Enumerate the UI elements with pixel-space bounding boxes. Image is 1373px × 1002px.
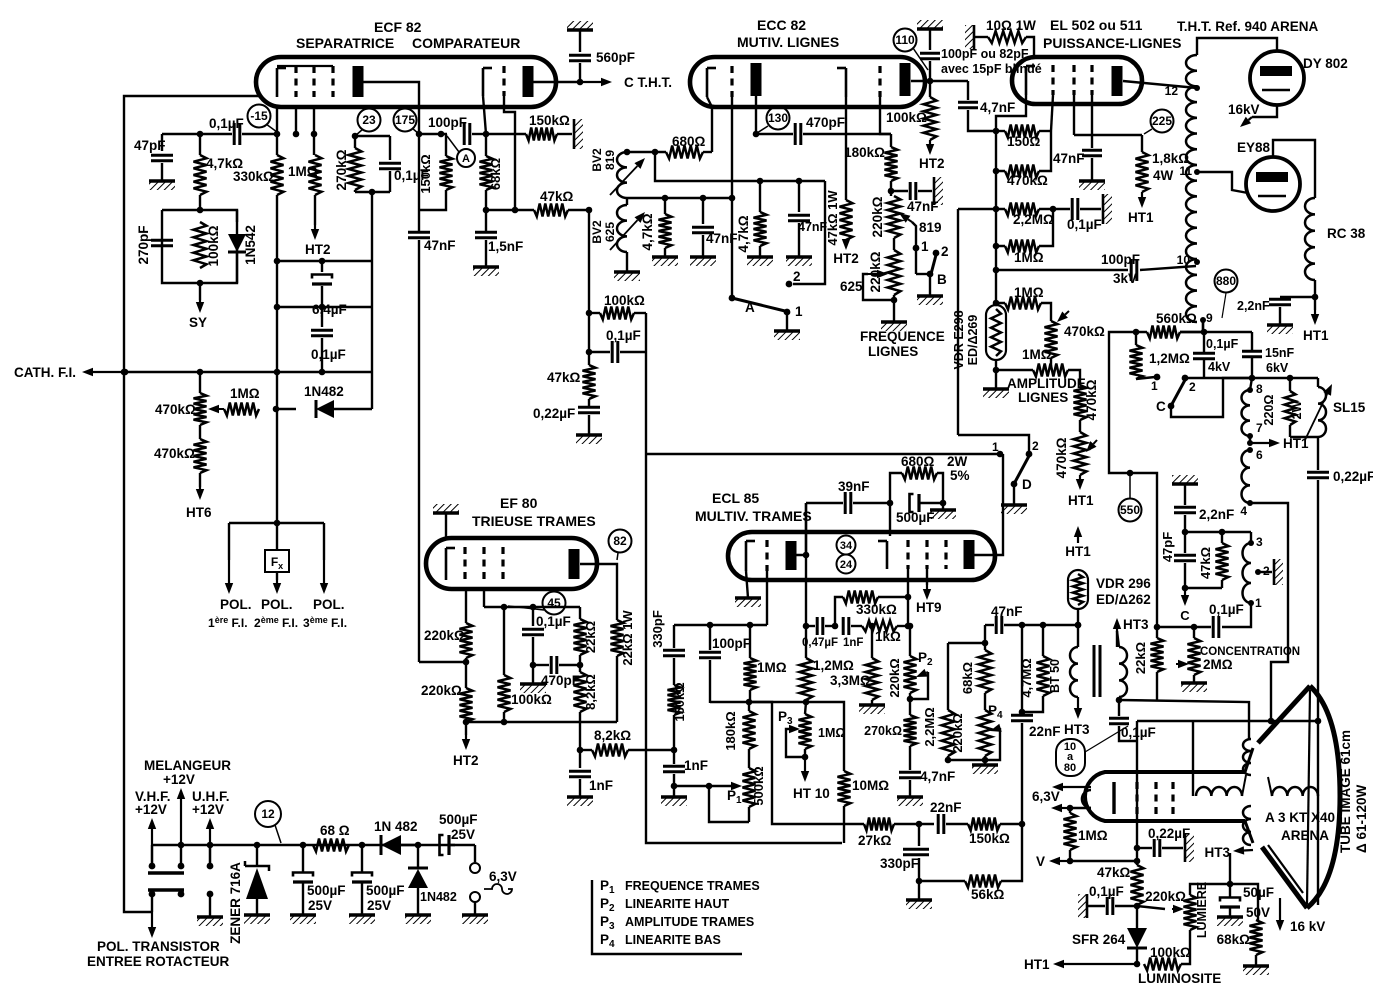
resistor 100k box: [589, 293, 646, 320]
svg-text:1MΩ: 1MΩ: [1022, 347, 1052, 362]
capacitor 470pF: [756, 115, 891, 145]
box trames left-bottom: [646, 454, 842, 843]
capacitor 22nF lin: [930, 800, 968, 834]
svg-text:4,7kΩ: 4,7kΩ: [640, 213, 655, 250]
resistor 3,3M tr: [830, 623, 879, 705]
svg-text:HT2: HT2: [305, 242, 331, 257]
svg-text:220Ω: 220Ω: [1262, 395, 1276, 426]
svg-text:D: D: [1022, 477, 1032, 492]
tap 11: [1179, 164, 1200, 178]
svg-text:180kΩ: 180kΩ: [723, 711, 738, 750]
wire EY88 top: [1273, 140, 1315, 198]
ground 47nF osc: [786, 257, 812, 266]
svg-text:8,2kΩ: 8,2kΩ: [583, 674, 598, 710]
svg-text:819: 819: [603, 150, 617, 170]
capacitor 0,1uF box: [589, 328, 646, 363]
svg-text:8: 8: [1256, 382, 1263, 396]
ground 0,22uF: [576, 435, 602, 444]
pin circle 175: [394, 109, 420, 135]
capacitor 100pF tr: [699, 625, 751, 703]
tap 7: [1247, 421, 1263, 439]
capacitor 47nF col419: [408, 232, 456, 662]
svg-text:TUBE IMAGE 61cm: TUBE IMAGE 61cm: [1338, 730, 1353, 853]
wire g2 rail: [1074, 134, 1142, 136]
svg-text:4,7kΩ: 4,7kΩ: [736, 215, 751, 252]
svg-text:HT3: HT3: [1123, 617, 1149, 632]
svg-text:12: 12: [261, 807, 275, 821]
CRT funnel bottom: [1262, 845, 1307, 908]
tube ECC82 label: [737, 17, 839, 50]
wire RC38 bottom: [1312, 280, 1319, 310]
svg-text:-15: -15: [250, 109, 268, 123]
wire rail y261: [277, 260, 372, 262]
wire x419 long: [418, 134, 420, 232]
CRT yoke hump bottom: [1243, 806, 1251, 845]
yoke coil left: [1193, 721, 1246, 796]
label A3KT X40 ARENA: [1265, 810, 1335, 843]
ground 1,5nF: [473, 267, 499, 276]
wire 560k left col: [1109, 332, 1157, 627]
THT sec coil 6-4: [1240, 447, 1263, 518]
capacitor 2,2nF thtr: [1237, 297, 1315, 325]
resistor 8,2k h: [580, 728, 677, 757]
wire ef bottom: [466, 721, 617, 723]
potentiometer 220k lumiere: [1145, 882, 1209, 938]
bracket 819: [912, 220, 942, 254]
ground 68k crt: [1243, 966, 1269, 975]
svg-text:550: 550: [1120, 503, 1140, 517]
capacitor 2,2nF mid: [1174, 507, 1234, 535]
capacitor 0,47uF: [802, 617, 838, 649]
label DY802: [1303, 56, 1348, 71]
wire top rail y134: [162, 131, 232, 138]
svg-text:470kΩ: 470kΩ: [1054, 437, 1069, 478]
rotacteur contacts VHF: [148, 845, 184, 912]
capacitor 0,1uF el: [1067, 198, 1102, 232]
pin circle 550: [1119, 470, 1142, 522]
bracket P1: [706, 783, 749, 822]
resistor 220 2W: [1262, 375, 1304, 437]
ground concentration: [1181, 683, 1207, 692]
tube ECL85 envelope: [728, 532, 995, 580]
svg-text:1,2MΩ: 1,2MΩ: [1149, 351, 1190, 366]
svg-text:12: 12: [1165, 84, 1179, 98]
svg-text:470pF: 470pF: [806, 115, 845, 130]
POL bracket: [229, 520, 324, 527]
svg-text:HT 10: HT 10: [793, 786, 830, 801]
svg-text:1MΩ: 1MΩ: [230, 386, 260, 401]
svg-text:225: 225: [1152, 114, 1172, 128]
switch B: [916, 244, 949, 296]
wire bt50 right top: [1117, 631, 1119, 647]
svg-text:0,22µF: 0,22µF: [1333, 469, 1373, 484]
capacitor 1nF tr2: [663, 750, 708, 797]
tube EF80 cathode: [446, 548, 455, 580]
label HT3 right: [1113, 617, 1149, 632]
arrow 16kV top: [1228, 102, 1260, 127]
pin circle 880: [1215, 270, 1238, 319]
tube EL502 cathode: [1026, 66, 1035, 95]
label VHF: [135, 789, 171, 817]
svg-text:3kV: 3kV: [1113, 271, 1137, 286]
wire EL502 g2 pin: [1073, 95, 1075, 135]
svg-text:625: 625: [603, 222, 617, 242]
wire SY out: [199, 283, 201, 300]
CRT yoke hump top: [1243, 739, 1251, 775]
resistor 10ohm 1W: [965, 18, 1036, 57]
resistor 470k lignes: [993, 131, 1051, 188]
capacitor 1nF tr: [843, 617, 863, 649]
wire ECL85 g2 pin: [905, 569, 912, 629]
svg-text:COMPARATEUR: COMPARATEUR: [412, 35, 520, 51]
svg-text:HT1: HT1: [1303, 328, 1329, 343]
tube EL502 envelope: [1012, 57, 1142, 104]
THT coil 3-2-1: [1243, 532, 1271, 610]
capacitor 270pF: [136, 225, 173, 264]
resistor 1M tr: [744, 625, 787, 702]
tube ECF82 grid g1: [294, 66, 297, 97]
pin circle -15: [248, 105, 278, 133]
svg-text:EF 80: EF 80: [500, 495, 538, 511]
legend P2: [600, 896, 730, 914]
svg-text:24: 24: [840, 559, 853, 571]
capacitor 1,5nF: [475, 232, 523, 267]
wire col x372 to diode: [371, 372, 373, 409]
ground P4: [972, 765, 998, 774]
svg-text:2: 2: [793, 269, 801, 284]
ground 500uF n1: [290, 915, 316, 924]
label HT1 amp: [1068, 493, 1094, 508]
svg-text:0,1µF: 0,1µF: [1089, 884, 1124, 899]
svg-text:CATH. F.I.: CATH. F.I.: [14, 365, 76, 380]
svg-text:1: 1: [795, 304, 803, 319]
tube EF80 grid g1: [463, 547, 466, 580]
switch C contact1: [1151, 374, 1160, 393]
svg-text:BV2: BV2: [590, 220, 604, 244]
tube ECF82 anode a2: [523, 66, 534, 97]
svg-text:500µF: 500µF: [896, 510, 935, 525]
resistor 4,7k bv: [640, 198, 672, 257]
arrow C THT: [580, 75, 672, 90]
svg-text:HT1: HT1: [1283, 436, 1309, 451]
switch C contact2: [1182, 375, 1204, 394]
resistor 1M el2: [993, 246, 1044, 310]
svg-text:10: 10: [1177, 253, 1191, 267]
svg-text:47nF: 47nF: [1053, 151, 1085, 166]
capacitor 500uF n1: [293, 845, 346, 915]
svg-text:6,4µF: 6,4µF: [312, 302, 347, 317]
box Fx: [265, 523, 289, 580]
wire ECF82 g2 pin down: [311, 107, 318, 155]
label CATH F.I.: [14, 365, 76, 380]
svg-text:C: C: [1156, 399, 1166, 414]
svg-text:4kV: 4kV: [1208, 360, 1231, 374]
arrow UHF: [206, 818, 214, 866]
wire k2 riser: [889, 503, 891, 536]
resistor 220k ef1: [424, 623, 473, 688]
svg-text:1ère F.I.: 1ère F.I.: [208, 615, 248, 630]
svg-text:HT1: HT1: [1068, 493, 1094, 508]
wire HT3 row: [1116, 631, 1118, 647]
svg-text:330pF: 330pF: [650, 610, 665, 648]
capacitor 330pF lin: [880, 824, 929, 884]
svg-text:HT1: HT1: [1065, 544, 1091, 559]
tube ECF82 grid g4: [502, 66, 505, 96]
svg-text:2,2nF: 2,2nF: [1199, 507, 1234, 522]
svg-text:2,2MΩ: 2,2MΩ: [922, 707, 937, 746]
pin circle 45: [508, 592, 566, 615]
resistor 270k: [334, 136, 362, 192]
svg-text:V: V: [1036, 854, 1045, 869]
svg-text:2: 2: [1189, 380, 1196, 394]
wire 12V bus: [152, 842, 455, 849]
THT sec coil 8-7: [1242, 378, 1264, 436]
svg-text:ECF 82: ECF 82: [374, 19, 422, 35]
pin circle 12: [255, 801, 281, 843]
wire EL502 k pin: [996, 95, 1026, 131]
svg-text:MULTIV. TRAMES: MULTIV. TRAMES: [695, 508, 812, 524]
capacitor 15nF 6kV: [1242, 332, 1295, 381]
resistor 220k P2: [887, 623, 933, 715]
wire ECL85 g1 pin: [766, 571, 768, 625]
resistor 680: [624, 134, 712, 159]
arrow HT1 sfr: [1024, 957, 1137, 972]
svg-text:HT2: HT2: [453, 753, 479, 768]
tube EY88: [1246, 157, 1300, 211]
bracket 625: [840, 274, 894, 300]
svg-text:220kΩ: 220kΩ: [424, 628, 465, 643]
potentiometer 470k mid: [1041, 303, 1105, 358]
capacitor 22nF tr: [1011, 625, 1061, 875]
svg-text:FREQUENCE: FREQUENCE: [860, 329, 945, 344]
svg-text:TRIEUSE TRAMES: TRIEUSE TRAMES: [472, 513, 596, 529]
resistor 100k ef: [498, 607, 553, 725]
resistor 68k: [480, 134, 504, 232]
hatch 2,2nF mid: [1172, 475, 1198, 505]
wire y625 rail: [674, 622, 767, 629]
svg-text:625: 625: [840, 279, 863, 294]
resistor 4,7M tr: [1019, 625, 1050, 712]
svg-text:220kΩ: 220kΩ: [421, 683, 462, 698]
resistor 56k lin: [919, 875, 1022, 903]
ground UHF: [197, 917, 223, 926]
wire ECC82 g2 pin: [880, 97, 891, 134]
arrow HT1 rc38: [1303, 310, 1329, 343]
wire 100pF3kV rail: [996, 269, 1128, 271]
svg-text:4,7nF: 4,7nF: [920, 769, 955, 784]
label POL 1ere FI: [208, 597, 252, 630]
wire ECC82 k2 pin: [845, 97, 847, 200]
svg-text:0,1µF: 0,1µF: [536, 614, 571, 629]
wire y198 rail: [627, 195, 735, 202]
tube ECC82 cathode k1: [707, 68, 716, 97]
wire ECF82 g1 pin down: [293, 107, 300, 137]
svg-text:470kΩ: 470kΩ: [1064, 324, 1105, 339]
capacitor 0,1uF AGC: [311, 307, 346, 375]
capacitor 0,1uF crt: [1109, 718, 1156, 741]
wire 110 rail: [930, 80, 968, 82]
svg-text:MELANGEUR: MELANGEUR: [144, 758, 231, 773]
wire tap11 to EY88: [1197, 172, 1248, 193]
svg-text:1: 1: [1255, 596, 1262, 610]
diode 1N482 shunt: [408, 845, 457, 915]
svg-text:150kΩ: 150kΩ: [529, 113, 570, 128]
wire ECF82 k2 pin down: [483, 96, 486, 134]
ground 47nF bv: [690, 257, 716, 266]
wire 550 line: [1050, 358, 1052, 368]
tube EL502 anode: [1112, 66, 1123, 96]
resistor 1M grid: [288, 155, 322, 225]
label HT2 100k: [919, 156, 945, 171]
svg-text:15nF: 15nF: [1265, 346, 1295, 360]
pin circle 130: [757, 107, 790, 134]
tube EL502 grid g2: [1072, 65, 1075, 95]
svg-text:4W: 4W: [1153, 168, 1174, 183]
legend P3: [600, 914, 754, 932]
legend P1: [600, 878, 760, 896]
vdr VDR296: [1068, 570, 1151, 609]
svg-text:SEPARATRICE: SEPARATRICE: [296, 35, 394, 51]
label MELANGEUR: [144, 758, 231, 787]
arrow SY: [189, 300, 207, 330]
capacitor 4,7nF tr: [899, 769, 955, 797]
wire ECF82 k1 pin down: [276, 107, 278, 134]
rotacteur contacts UHF: [207, 845, 214, 917]
resistor 100k lum: [1144, 930, 1191, 971]
ground 2,2nF thtr: [1267, 325, 1293, 334]
svg-text:3: 3: [1256, 535, 1263, 549]
zener 716A: [228, 845, 269, 944]
wire 23 rail: [355, 135, 390, 137]
resistor 560k: [1147, 311, 1203, 339]
svg-text:819: 819: [919, 220, 942, 235]
wire 1,2M: [1130, 329, 1191, 379]
capacitor 500uF trames: [896, 494, 946, 525]
svg-text:POL.: POL.: [261, 597, 293, 612]
arrow HT3 bt50: [1064, 697, 1090, 737]
wire y607 rail: [484, 604, 580, 611]
arrow HT2 ef: [453, 735, 479, 768]
svg-text:47pF: 47pF: [134, 138, 166, 153]
resistor 22k conc: [1133, 627, 1164, 700]
tube ECF82 label: [296, 19, 520, 51]
POL arrow 2: [273, 580, 281, 594]
capacitor 0,22uF col589: [533, 406, 600, 435]
svg-text:68kΩ: 68kΩ: [960, 662, 975, 694]
wire yoke top rail: [1137, 718, 1321, 725]
label UHF: [192, 789, 230, 817]
svg-text:4: 4: [1240, 504, 1247, 518]
svg-text:27kΩ: 27kΩ: [858, 833, 892, 848]
svg-text:A: A: [745, 300, 755, 315]
wire tap4 out: [1250, 503, 1288, 721]
capacitor 560pF: [567, 21, 635, 85]
transformer BT50 core: [1094, 645, 1100, 697]
label TUBE IMAGE: [1338, 730, 1369, 853]
transformer BT50 right: [1119, 647, 1127, 697]
svg-text:330pF: 330pF: [880, 856, 919, 871]
POL arrow 3: [320, 523, 328, 594]
yoke coil right: [1268, 777, 1318, 796]
capacitor 0,1uF ef: [522, 607, 571, 665]
wire ECC82 a1 pin: [753, 96, 760, 137]
svg-text:47kΩ: 47kΩ: [1097, 865, 1131, 880]
svg-text:0,1µF: 0,1µF: [606, 328, 641, 343]
resistor 4,7k osc: [736, 181, 767, 257]
resistor 27k: [858, 818, 934, 849]
potentiometer 470k top: [155, 372, 224, 425]
resistor 22k ef: [574, 607, 599, 665]
svg-text:SY: SY: [189, 315, 207, 330]
ground 680 2W: [930, 503, 956, 519]
resistor 220k ef2: [421, 683, 473, 735]
wire EF80 g2 pin: [483, 589, 485, 607]
svg-text:270kΩ: 270kΩ: [864, 724, 902, 738]
capacitor 100pF: [428, 115, 489, 145]
tube DY802: [1250, 51, 1304, 105]
wire col x372 down: [371, 192, 373, 372]
svg-text:25V: 25V: [308, 898, 332, 913]
resistor 10M: [838, 771, 890, 843]
label HT1 18k: [1128, 210, 1154, 225]
wire ECL85 a2 out: [974, 454, 1003, 555]
wire y702: [710, 699, 809, 706]
hatch EF80 shield: [433, 504, 459, 538]
svg-text:1: 1: [1151, 379, 1158, 393]
wire crt grid col: [1134, 721, 1141, 864]
diode 1N482 bus: [374, 819, 418, 855]
resistor 22k 1W ef: [611, 610, 636, 722]
resistor 47k sep: [534, 189, 592, 217]
svg-text:220kΩ: 220kΩ: [950, 713, 965, 752]
wire 277 down: [276, 372, 278, 409]
wire V rail: [1070, 860, 1137, 862]
svg-text:ENTREE ROTACTEUR: ENTREE ROTACTEUR: [87, 954, 230, 969]
svg-text:4,7nF: 4,7nF: [980, 100, 1015, 115]
wire ECL85 a1 out: [796, 503, 809, 558]
tube ECF82 envelope: [256, 57, 556, 107]
ground vdr E298: [983, 370, 1009, 398]
tube ECF82 top strap: [277, 65, 333, 67]
resistor 100k SY: [194, 222, 222, 268]
arrow HT1 tap7: [1247, 436, 1309, 451]
capacitor 47nF bv: [692, 198, 738, 257]
svg-text:175: 175: [395, 113, 415, 127]
svg-text:6,3V: 6,3V: [1032, 789, 1060, 804]
diode 1N482 left: [276, 384, 372, 418]
pin circle A: [447, 136, 475, 167]
resistor 150k pullup: [526, 113, 572, 141]
diode SFR264: [1072, 928, 1147, 967]
tap 10: [1177, 253, 1200, 267]
wire ECF82 g4 pin down: [504, 96, 515, 210]
svg-text:C: C: [1180, 608, 1190, 623]
wire tap9 down rail: [1180, 322, 1252, 332]
svg-text:22kΩ: 22kΩ: [1133, 642, 1148, 674]
capacitor 50uF: [1220, 884, 1274, 920]
svg-text:BV2: BV2: [590, 148, 604, 172]
svg-text:5%: 5%: [950, 468, 970, 483]
diode 1N542: [228, 210, 258, 283]
resistor 47k vert col589: [547, 365, 596, 406]
svg-text:23: 23: [362, 113, 376, 127]
tube ECC82 anode a1: [751, 63, 762, 96]
arrow HT9: [916, 569, 942, 615]
svg-text:880: 880: [1216, 274, 1236, 288]
svg-text:25V: 25V: [367, 898, 391, 913]
svg-text:0,1µF: 0,1µF: [1209, 602, 1244, 617]
svg-text:100pF: 100pF: [712, 636, 751, 651]
